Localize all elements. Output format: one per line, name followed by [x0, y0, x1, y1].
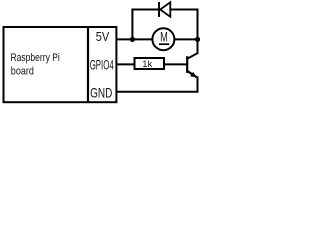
- svg-text:GPIO4: GPIO4: [90, 57, 114, 72]
- svg-text:1k: 1k: [142, 59, 152, 70]
- svg-text:M: M: [160, 30, 168, 45]
- svg-text:Raspberry Pi: Raspberry Pi: [11, 52, 60, 64]
- svg-text:5V: 5V: [96, 29, 110, 44]
- svg-text:board: board: [11, 66, 34, 78]
- svg-text:GND: GND: [90, 86, 112, 101]
